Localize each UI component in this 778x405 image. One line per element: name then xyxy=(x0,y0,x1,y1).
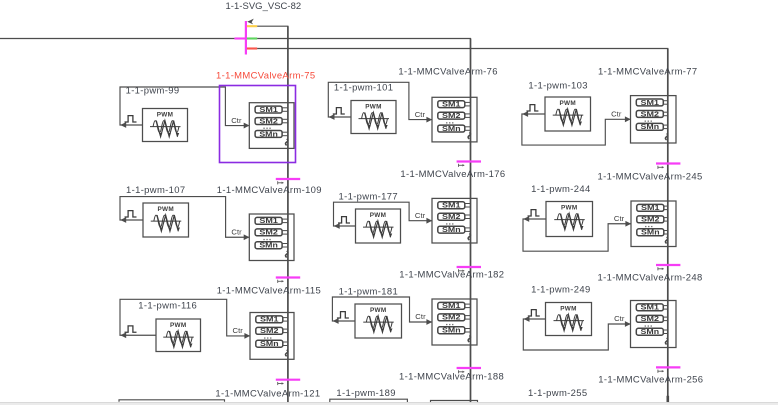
port label Ctr (1-1-MMCValveArm-77) xyxy=(611,110,622,119)
svg-text:Ctr: Ctr xyxy=(415,211,426,220)
wire green phase to column-2 bus xyxy=(257,38,471,40)
node tick under MMCValveArm-245 xyxy=(656,265,680,270)
svg-text:1-1-MMCValveArm-176: 1-1-MMCValveArm-176 xyxy=(400,169,505,180)
wire feedback loop 1-1-pwm-177 to valve arm xyxy=(334,202,433,229)
port label Ctr (1-1-MMCValveArm-182) xyxy=(415,312,426,321)
svg-text:1-1-pwm-249: 1-1-pwm-249 xyxy=(531,285,590,296)
wire feedback loop 1-1-pwm-249 to valve arm xyxy=(523,316,630,350)
svg-text:1-1-MMCValveArm-76: 1-1-MMCValveArm-76 xyxy=(398,67,497,78)
svg-text:1-1-MMCValveArm-248: 1-1-MMCValveArm-248 xyxy=(598,273,703,284)
MMC valve arm block 1-1-MMCValveArm-109 xyxy=(249,214,294,261)
label 1-1-MMCValveArm-121 xyxy=(215,388,320,399)
pulse input glyph 1-1-pwm-249 xyxy=(528,310,540,316)
selection rectangle around 1-1-MMCValveArm-75 xyxy=(220,86,296,163)
label 1-1-pwm-255 xyxy=(528,388,587,399)
svg-text:SM1: SM1 xyxy=(260,317,279,324)
wire yellow phase to column-1 bus xyxy=(257,25,288,27)
svg-text:SMn: SMn xyxy=(442,227,461,234)
phase stub yellow xyxy=(247,25,257,27)
MMC valve arm block 1-1-MMCValveArm-176 xyxy=(432,198,477,243)
svg-text:PWM: PWM xyxy=(170,322,187,329)
pwm block 1-1-pwm-177 xyxy=(356,209,401,243)
svg-text:PWM: PWM xyxy=(157,112,174,119)
node tick under MMCValveArm-115 xyxy=(276,380,300,385)
svg-text:1-1-MMCValveArm-121: 1-1-MMCValveArm-121 xyxy=(215,388,320,399)
svg-text:PWM: PWM xyxy=(560,306,577,313)
node tick under MMCValveArm-182 xyxy=(457,368,481,373)
wire next row (column 1) xyxy=(119,400,225,402)
label 1-1-MMCValveArm-245 xyxy=(598,172,703,183)
port label Ctr (1-1-MMCValveArm-115) xyxy=(233,326,244,335)
label 1-1-MMCValveArm-176 xyxy=(400,169,505,180)
svg-text:SM2: SM2 xyxy=(260,328,279,335)
svg-text:PWM: PWM xyxy=(370,212,387,219)
svg-text:Ctr: Ctr xyxy=(231,227,242,236)
svg-text:SM1: SM1 xyxy=(641,205,660,212)
label 1-1-MMCValveArm-109 xyxy=(217,185,322,196)
port label Ctr (1-1-MMCValveArm-75) xyxy=(231,116,242,125)
phase stub red xyxy=(247,47,257,49)
svg-text:SM2: SM2 xyxy=(641,217,660,224)
svg-text:Ctr: Ctr xyxy=(614,314,625,323)
svg-text:PWM: PWM xyxy=(561,205,578,212)
pwm block 1-1-pwm-99 xyxy=(143,109,188,142)
pwm block 1-1-pwm-107 xyxy=(143,203,189,237)
svg-text:SMn: SMn xyxy=(259,131,278,138)
busbar nub (column 3 bottom) xyxy=(666,396,669,403)
svg-text:1-1-MMCValveArm-182: 1-1-MMCValveArm-182 xyxy=(399,270,504,281)
svg-text:PWM: PWM xyxy=(370,307,387,314)
svg-text:SM2: SM2 xyxy=(641,316,660,323)
port label Ctr (1-1-MMCValveArm-176) xyxy=(415,211,426,220)
wire green phase left rail xyxy=(0,38,234,40)
svg-text:1-1-MMCValveArm-245: 1-1-MMCValveArm-245 xyxy=(598,172,703,183)
label 1-1-pwm-116 xyxy=(138,300,197,311)
bus B1 (magenta busbar) xyxy=(245,21,247,55)
svg-text:1-1-pwm-244: 1-1-pwm-244 xyxy=(531,184,590,195)
svg-text:SM2: SM2 xyxy=(442,214,461,221)
svg-text:SM1: SM1 xyxy=(442,303,461,310)
label 1-1-pwm-249 xyxy=(531,285,590,296)
node arrow marker xyxy=(247,19,254,25)
MMC valve arm block 1-1-MMCValveArm-182 xyxy=(432,299,477,345)
port label Ctr (1-1-MMCValveArm-248) xyxy=(614,314,625,323)
label 1-1-MMCValveArm-256 xyxy=(598,375,703,386)
svg-text:1-1-MMCValveArm-77: 1-1-MMCValveArm-77 xyxy=(598,67,697,78)
MMC valve arm block 1-1-MMCValveArm-76 xyxy=(432,97,477,142)
busbar column 2 xyxy=(470,39,472,404)
pulse input glyph 1-1-pwm-103 xyxy=(526,105,538,111)
pulse input glyph 1-1-pwm-101 xyxy=(333,108,345,114)
svg-text:SM1: SM1 xyxy=(259,218,278,225)
svg-text:1-1-MMCValveArm-115: 1-1-MMCValveArm-115 xyxy=(217,286,321,297)
label 1-1-pwm-244 xyxy=(531,184,590,195)
svg-text:PWM: PWM xyxy=(157,206,174,213)
port label Ctr (1-1-MMCValveArm-76) xyxy=(415,110,426,119)
svg-text:1-1-MMCValveArm-109: 1-1-MMCValveArm-109 xyxy=(217,185,322,196)
label 1-1-pwm-181 xyxy=(339,287,398,298)
svg-text:Ctr: Ctr xyxy=(415,110,426,119)
pulse input glyph 1-1-pwm-244 xyxy=(528,210,540,216)
pwm block 1-1-pwm-249 xyxy=(546,303,592,336)
wire feedback loop 1-1-pwm-181 to valve arm xyxy=(332,297,432,325)
svg-text:SM2: SM2 xyxy=(259,230,278,237)
svg-text:SMn: SMn xyxy=(442,328,461,335)
svg-text:1-1-MMCValveArm-75: 1-1-MMCValveArm-75 xyxy=(216,70,315,81)
svg-text:SM2: SM2 xyxy=(259,118,278,125)
svg-text:1-1-pwm-101: 1-1-pwm-101 xyxy=(334,83,393,94)
wire feedback loop 1-1-pwm-101 to valve arm xyxy=(328,82,432,122)
svg-text:SM1: SM1 xyxy=(259,107,278,114)
pwm block 1-1-pwm-181 xyxy=(355,304,402,338)
svg-text:1-1-pwm-103: 1-1-pwm-103 xyxy=(528,81,587,92)
svg-text:1-1-pwm-181: 1-1-pwm-181 xyxy=(339,287,398,298)
node tick under MMCValveArm-109 xyxy=(276,278,300,283)
svg-text:SM1: SM1 xyxy=(641,100,660,107)
label 1-1-MMCValveArm-248 xyxy=(598,273,703,284)
svg-text:SM1: SM1 xyxy=(442,102,461,109)
wire feedback loop 1-1-pwm-103 to valve arm xyxy=(522,111,631,145)
node tick under MMCValveArm-75 xyxy=(276,179,300,184)
svg-text:Ctr: Ctr xyxy=(611,110,622,119)
MMC valve arm block 1-1-MMCValveArm-248 xyxy=(631,301,677,348)
label 1-1-pwm-177 xyxy=(339,192,398,203)
wire feedback loop 1-1-pwm-99 to valve arm xyxy=(120,87,250,128)
label 1-1-MMCValveArm-76 xyxy=(398,67,497,78)
label 1-1-pwm-99 xyxy=(126,85,180,96)
node tick under MMCValveArm-248 xyxy=(656,367,680,372)
pulse input glyph 1-1-pwm-181 xyxy=(337,312,349,318)
svg-text:Ctr: Ctr xyxy=(415,312,426,321)
MMC valve arm block 1-1-MMCValveArm-115 xyxy=(250,313,294,360)
label 1-1-SVG_VSC-82 xyxy=(226,1,302,12)
svg-text:PWM: PWM xyxy=(559,100,576,107)
svg-text:1-1-pwm-116: 1-1-pwm-116 xyxy=(138,300,197,311)
pulse input glyph 1-1-pwm-107 xyxy=(125,211,137,217)
node tick under MMCValveArm-77 xyxy=(656,164,680,169)
svg-text:1-1-SVG_VSC-82: 1-1-SVG_VSC-82 xyxy=(226,1,302,12)
next MMC valve arm box top (column 2) xyxy=(431,401,478,404)
port label Ctr (1-1-MMCValveArm-245) xyxy=(614,214,625,223)
pulse input glyph 1-1-pwm-99 xyxy=(125,116,137,122)
wire red phase to column-3 bus xyxy=(257,48,668,50)
pwm block 1-1-pwm-103 xyxy=(545,97,591,131)
label 1-1-MMCValveArm-188 xyxy=(399,371,504,382)
svg-text:1-1-pwm-107: 1-1-pwm-107 xyxy=(126,185,185,196)
node tick under MMCValveArm-176 xyxy=(457,267,481,272)
label 1-1-MMCValveArm-77 xyxy=(598,67,697,78)
phase stub green xyxy=(247,37,257,39)
svg-text:SM2: SM2 xyxy=(641,111,660,118)
label 1-1-pwm-103 xyxy=(528,81,587,92)
pwm block 1-1-pwm-101 xyxy=(351,101,396,134)
svg-text:Ctr: Ctr xyxy=(614,214,625,223)
pulse input glyph 1-1-pwm-177 xyxy=(338,217,350,223)
node tick under MMCValveArm-76 xyxy=(457,162,481,167)
label 1-1-pwm-107 xyxy=(126,185,185,196)
svg-text:Ctr: Ctr xyxy=(231,116,242,125)
svg-text:1-1-pwm-177: 1-1-pwm-177 xyxy=(339,192,398,203)
svg-text:SMn: SMn xyxy=(260,341,279,348)
MMC valve arm block 1-1-MMCValveArm-77 xyxy=(631,96,677,143)
svg-text:Ctr: Ctr xyxy=(233,326,244,335)
pwm block 1-1-pwm-116 xyxy=(156,319,201,352)
svg-text:SMn: SMn xyxy=(641,230,660,237)
svg-text:1-1-MMCValveArm-188: 1-1-MMCValveArm-188 xyxy=(399,371,504,382)
busbar column 3 xyxy=(667,49,669,404)
wire feedback loop 1-1-pwm-244 to valve arm xyxy=(523,216,631,251)
svg-text:PWM: PWM xyxy=(365,104,382,111)
wire feedback loop 1-1-pwm-107 to valve arm xyxy=(120,197,250,241)
label 1-1-MMCValveArm-75 xyxy=(216,70,315,81)
svg-text:1-1-MMCValveArm-256: 1-1-MMCValveArm-256 xyxy=(598,375,703,386)
label 1-1-pwm-101 xyxy=(334,83,393,94)
bus tick left of B1 xyxy=(234,37,246,39)
svg-text:SM2: SM2 xyxy=(442,113,461,120)
svg-text:SMn: SMn xyxy=(641,124,660,131)
MMC valve arm block 1-1-MMCValveArm-245 xyxy=(631,201,676,247)
svg-text:1-1-pwm-189: 1-1-pwm-189 xyxy=(336,388,395,399)
svg-text:SMn: SMn xyxy=(641,329,660,336)
port label Ctr (1-1-MMCValveArm-109) xyxy=(231,227,242,236)
svg-text:SM2: SM2 xyxy=(442,315,461,322)
wire feedback loop 1-1-pwm-116 to valve arm xyxy=(120,299,250,339)
wire next row (column 2) xyxy=(330,399,408,402)
busbar column 1 xyxy=(287,26,289,403)
svg-text:SMn: SMn xyxy=(259,243,278,250)
svg-text:SMn: SMn xyxy=(442,126,461,133)
label 1-1-pwm-189 xyxy=(336,388,395,399)
svg-text:SM1: SM1 xyxy=(442,203,461,210)
svg-text:SM1: SM1 xyxy=(641,305,660,312)
label 1-1-MMCValveArm-182 xyxy=(399,270,504,281)
pwm block 1-1-pwm-244 xyxy=(546,202,593,237)
label 1-1-MMCValveArm-115 xyxy=(217,286,321,297)
MMC valve arm block 1-1-MMCValveArm-75 xyxy=(249,103,294,149)
svg-text:1-1-pwm-255: 1-1-pwm-255 xyxy=(528,388,587,399)
pulse input glyph 1-1-pwm-116 xyxy=(125,326,137,332)
